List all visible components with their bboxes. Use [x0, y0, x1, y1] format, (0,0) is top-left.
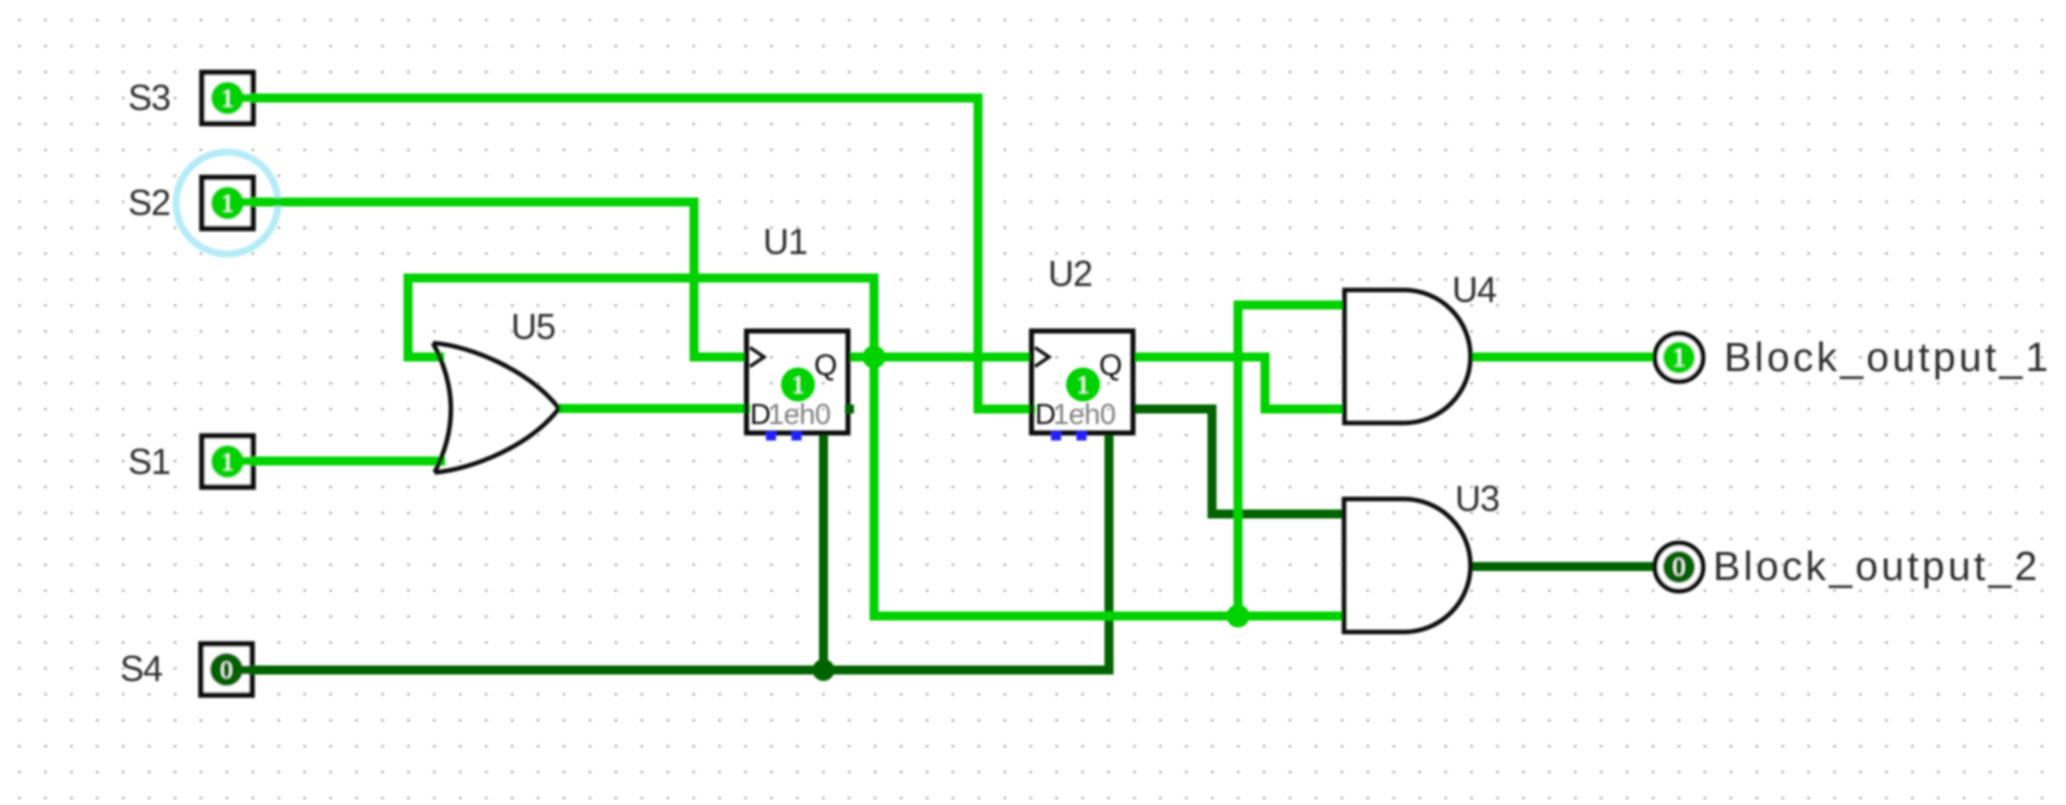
wire U4 output to Block_output_1 [1470, 353, 1656, 362]
svg-text:Block_output_2: Block_output_2 [1713, 543, 2040, 589]
input pin S1 [202, 436, 258, 487]
pin ring Block_output_2 [1655, 543, 1703, 591]
svg-text:1eh0: 1eh0 [768, 399, 831, 431]
wire U2 Q to U4 lower input [1133, 357, 1346, 409]
svg-text:S1: S1 [128, 441, 170, 482]
OR gate U5 [433, 343, 559, 473]
wire stub S4 [239, 666, 257, 675]
clock input triangle U1 [750, 348, 764, 367]
flip-flop U2 [1032, 331, 1134, 441]
svg-text:0: 0 [220, 657, 233, 684]
value disc [210, 653, 243, 686]
wire U1 Q to U2 clock [848, 353, 1032, 362]
svg-text:U1: U1 [763, 221, 807, 262]
wire S2 to U1 clock [240, 202, 746, 357]
svg-text:U2: U2 [1048, 253, 1092, 294]
floating input marks U2 [1051, 432, 1061, 441]
wire feedback loop U1 Q to U5 top input and U3 lower input [408, 278, 1346, 616]
value disc [1663, 342, 1695, 374]
U5 bottom arc [435, 409, 560, 473]
wire U5 output to U1 D input [558, 404, 750, 413]
svg-text:U3: U3 [1455, 478, 1499, 519]
junction S4 net [813, 659, 835, 681]
output pin Block_output_2 [1655, 543, 1703, 591]
bright green wires (logic 1) [240, 98, 1656, 616]
pin box S2 [202, 178, 253, 229]
dark green wires (logic 0) [240, 409, 1656, 670]
svg-text:1: 1 [1673, 343, 1686, 372]
floating input marks U1 [766, 432, 776, 441]
unconnected pin stub U1 [845, 405, 854, 414]
value disc [211, 82, 244, 115]
junction U3 lower input net [1227, 605, 1250, 628]
input pin S2 [202, 178, 258, 229]
svg-text:Block_output_1: Block_output_1 [1724, 334, 2051, 380]
wire U3 output to Block_output_2 [1470, 562, 1656, 571]
wire stub S2 [240, 198, 258, 207]
value disc [211, 445, 244, 478]
wire U2 lower output to U3 upper input [1133, 409, 1346, 514]
pin box S1 [202, 436, 253, 487]
body box U1 [747, 331, 849, 433]
AND gate U4 [1345, 290, 1471, 423]
wire S4 horizontal to U2 bottom [240, 433, 1109, 670]
svg-text:Q: Q [1099, 349, 1122, 382]
svg-text:1: 1 [221, 191, 234, 218]
svg-text:S2: S2 [128, 182, 170, 223]
wire stub S1 [240, 457, 258, 466]
U5 top arc [433, 343, 559, 409]
svg-text:S3: S3 [128, 77, 170, 118]
pin box S4 [201, 644, 252, 695]
svg-text:1eh0: 1eh0 [1053, 399, 1116, 431]
svg-text:U4: U4 [1452, 269, 1496, 310]
pin box S3 [202, 73, 253, 124]
svg-text:1: 1 [221, 86, 234, 113]
body box U2 [1032, 331, 1134, 433]
svg-text:1: 1 [221, 449, 234, 476]
halo around S2 [176, 152, 278, 254]
svg-text:0: 0 [1673, 553, 1686, 582]
output pin Block_output_1 [1655, 334, 1703, 382]
AND gate U3 [1344, 499, 1471, 632]
wire S1 to U5 input [240, 457, 445, 466]
junction U1 Q [863, 346, 886, 369]
input pin S3 [202, 73, 258, 124]
svg-text:Q: Q [814, 349, 837, 382]
svg-text:1: 1 [1077, 372, 1090, 399]
pin ring Block_output_1 [1655, 334, 1703, 382]
svg-text:U5: U5 [511, 306, 555, 347]
value disc [1663, 551, 1695, 583]
wire U1 bottom vertical [819, 433, 828, 670]
wire net to U4 upper input [1238, 305, 1346, 616]
U5 input-side arc [433, 343, 451, 473]
state value disc U2 [1066, 368, 1100, 402]
value disc [211, 187, 244, 220]
wire stub S3 [240, 94, 258, 103]
flip-flop U1 [747, 331, 855, 441]
clock input triangle U2 [1035, 348, 1049, 367]
svg-text:1: 1 [792, 372, 805, 399]
state value disc U1 [781, 368, 815, 402]
input pin S4 [201, 644, 257, 695]
svg-text:S4: S4 [120, 648, 162, 689]
wire S3 to U2 D input [240, 98, 1035, 409]
